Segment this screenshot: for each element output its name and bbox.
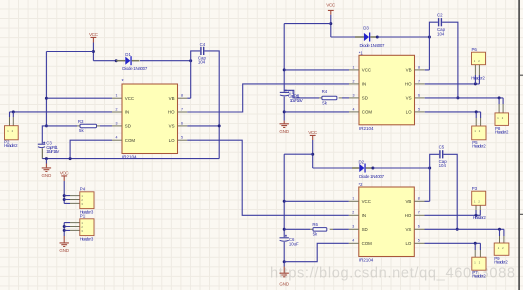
wire VCC1 to rail xyxy=(46,51,93,53)
node rail SD junction circuit3 xyxy=(283,228,286,231)
wire rail to R6 xyxy=(284,228,310,230)
node P2 pin2 junction xyxy=(12,110,15,113)
power VCC symbol circuit2 xyxy=(326,3,336,15)
wire R6 to SD pin xyxy=(333,228,349,230)
node D3 cathode junction xyxy=(376,36,379,39)
pin 7 HO xyxy=(178,111,188,113)
wire P8 pin risers xyxy=(499,98,503,104)
pin leads header P7 xyxy=(475,250,480,257)
wire VCC to P4 rail xyxy=(63,181,65,203)
svg-text:5k: 5k xyxy=(322,100,327,105)
pin 8 VB xyxy=(414,200,424,202)
pin lead D2 anode xyxy=(352,167,359,169)
svg-text:IN: IN xyxy=(125,110,129,115)
pin lead D2 cathode xyxy=(366,167,373,169)
wire P5 pin risers xyxy=(476,112,480,118)
power VCC symbol circuit1 xyxy=(89,32,99,42)
resistor R3 xyxy=(78,119,97,133)
svg-text:2: 2 xyxy=(353,79,355,83)
svg-text:IN: IN xyxy=(362,82,366,87)
IC U? IR2104 circuit1 xyxy=(122,79,178,159)
svg-text:P6: P6 xyxy=(472,47,478,52)
pin leads header P8 xyxy=(499,104,503,113)
svg-text:R3: R3 xyxy=(78,119,84,124)
svg-text:4: 4 xyxy=(352,239,354,243)
svg-text:D1: D1 xyxy=(125,52,131,57)
node P4 pin1 junction xyxy=(63,194,66,197)
pin 1 VCC xyxy=(349,200,359,202)
svg-text:10uF 16V: 10uF 16V xyxy=(290,98,303,103)
wire left rail circuit3 xyxy=(283,154,285,237)
wire LO3 to P7 xyxy=(425,242,481,244)
node COM branch junction xyxy=(69,157,72,160)
wire VCC pin1 xyxy=(46,97,112,99)
connector P6 Header 2 xyxy=(471,47,485,80)
svg-text:VCC: VCC xyxy=(362,68,371,73)
svg-text:SD: SD xyxy=(362,227,368,232)
svg-text:5k: 5k xyxy=(313,231,318,236)
svg-text:P3: P3 xyxy=(472,186,478,191)
diode D3 xyxy=(360,25,386,48)
svg-text:VCC: VCC xyxy=(326,3,336,8)
node C2 left leg junction xyxy=(428,36,431,39)
svg-text:VCC: VCC xyxy=(89,32,99,37)
svg-text:HO: HO xyxy=(405,82,412,87)
pin 7 HO xyxy=(414,214,424,216)
svg-text:C5: C5 xyxy=(439,145,445,150)
pin 6 VS xyxy=(414,228,424,230)
capacitor C2 xyxy=(437,13,446,37)
pin lead D3 anode xyxy=(355,36,364,38)
svg-text:GND: GND xyxy=(42,173,52,178)
node C2 leg VS junction xyxy=(456,96,459,99)
svg-text:4: 4 xyxy=(353,107,355,111)
svg-text:VCC: VCC xyxy=(125,96,134,101)
svg-text:7: 7 xyxy=(181,107,183,111)
svg-text:COM: COM xyxy=(362,241,373,246)
svg-text:IR2104: IR2104 xyxy=(359,258,374,263)
ground GND circuit1 xyxy=(42,159,52,178)
wire C4 left leg to VB pin8 xyxy=(187,51,200,98)
wire R4 to SD pin xyxy=(342,97,349,99)
svg-text:COM: COM xyxy=(362,110,373,115)
wire LO2 to P5 xyxy=(425,111,481,113)
connector P7 Header 2 xyxy=(472,257,486,278)
wire VCC2 to rail xyxy=(284,23,331,25)
svg-text:1: 1 xyxy=(116,94,118,98)
wire HO1 to IN2 xyxy=(187,84,349,112)
capacitor C6 Cap Pol1 xyxy=(280,235,300,247)
svg-text:LO: LO xyxy=(169,138,175,143)
wire C4 right leg down to VS xyxy=(204,51,219,159)
wire D1 cathode to C4 leg xyxy=(140,60,191,62)
wire P6 pin risers xyxy=(475,75,479,84)
node VCC3 tee xyxy=(311,153,314,156)
wire P3 pin risers xyxy=(476,210,480,215)
wire IN1 from header P2 xyxy=(10,111,113,113)
svg-text:VS: VS xyxy=(169,124,175,129)
svg-text:5: 5 xyxy=(181,136,183,140)
pin 3 SD xyxy=(112,125,122,127)
svg-text:2: 2 xyxy=(352,211,354,215)
svg-text:104: 104 xyxy=(439,163,447,168)
capacitor C5 xyxy=(439,145,448,169)
node P4 pin2 junction xyxy=(63,198,66,201)
wire P7 pin risers xyxy=(475,243,480,250)
node COM junction circuit2 xyxy=(283,110,286,113)
pin 4 COM xyxy=(112,139,122,141)
pin lead R6 left xyxy=(310,228,313,230)
node rail-SD junction xyxy=(45,124,48,127)
svg-text:7: 7 xyxy=(418,211,420,215)
svg-text:Header 2: Header 2 xyxy=(4,143,18,148)
capacitor C1 Cap Pol1 xyxy=(280,89,303,103)
svg-text:P1: P1 xyxy=(80,214,86,219)
svg-text:COM: COM xyxy=(125,138,136,143)
node C4 left leg junction xyxy=(189,59,192,62)
capacitor C4 xyxy=(198,42,207,64)
node P8 pin junction xyxy=(498,96,501,99)
pin 5 LO xyxy=(415,111,425,113)
wire C2 left leg to VB pin8 xyxy=(425,22,438,70)
wire D3 to C2 leg xyxy=(377,36,429,38)
ground GND circuit2 xyxy=(279,121,289,134)
pin 3 SD xyxy=(349,228,359,230)
svg-text:3: 3 xyxy=(116,121,118,125)
wire VCC pin1 circuit2 xyxy=(284,69,349,71)
wire SD2 step from rail xyxy=(284,90,319,98)
power VCC symbol bottom-left xyxy=(60,171,70,181)
svg-text:10uF 16V: 10uF 16V xyxy=(46,149,59,154)
connector P4 Header 3 xyxy=(80,187,94,215)
pin 6 VS xyxy=(415,97,425,99)
svg-text:4: 4 xyxy=(116,136,118,140)
capacitor C3 Cap Pol1 xyxy=(38,140,60,154)
svg-text:Header 3: Header 3 xyxy=(80,236,94,241)
wire VCC2 to diode D3 xyxy=(331,36,355,38)
pin 5 LO xyxy=(178,139,188,141)
wire R3 to SD pin xyxy=(100,125,112,127)
svg-text:5k: 5k xyxy=(79,128,84,133)
svg-text:D3: D3 xyxy=(363,25,369,30)
svg-text:IN: IN xyxy=(362,213,366,218)
connector P8 Header 2 xyxy=(495,113,509,135)
svg-text:GND: GND xyxy=(279,129,289,134)
pin lead R4 left xyxy=(319,97,322,99)
svg-text:HO: HO xyxy=(168,110,175,115)
wire VCC pin1 circuit3 xyxy=(284,200,349,202)
pin 2 IN xyxy=(112,111,122,113)
svg-text:P4: P4 xyxy=(80,187,86,192)
svg-text:R6: R6 xyxy=(312,222,318,227)
wire HO3 to P3 xyxy=(425,214,481,216)
svg-text:IR2104: IR2104 xyxy=(359,126,374,131)
wire VS3 to P9 xyxy=(425,228,504,230)
svg-text:VS: VS xyxy=(405,227,411,232)
wire rail to R3 xyxy=(46,125,77,127)
node P7 pin junction xyxy=(474,242,477,245)
wire rail jog to C3 xyxy=(42,126,46,144)
svg-text:Diode 1N4007: Diode 1N4007 xyxy=(122,66,148,71)
wire COM ground rail circuit1 xyxy=(42,158,219,160)
svg-text:SD: SD xyxy=(125,124,131,129)
svg-text:5: 5 xyxy=(418,239,420,243)
node P1 pin3 junction xyxy=(63,229,66,232)
resistor R6 xyxy=(312,222,326,236)
pin leads header P3 xyxy=(476,205,480,210)
node P1 pin2 junction xyxy=(63,225,66,228)
pin lead D3 cathode xyxy=(370,36,377,38)
wire VCC1 to diode D1 xyxy=(93,60,116,62)
svg-text:VCC: VCC xyxy=(362,199,371,204)
wire COM branch xyxy=(70,140,112,158)
svg-text:VB: VB xyxy=(405,199,411,204)
pin leads header P2 xyxy=(10,117,14,126)
svg-text:VCC: VCC xyxy=(60,171,70,176)
svg-text:3: 3 xyxy=(353,93,355,97)
svg-text:104: 104 xyxy=(198,60,206,65)
diode D1 xyxy=(122,52,148,71)
CIRCUIT3 xyxy=(187,130,509,286)
svg-text:VB: VB xyxy=(169,96,175,101)
sheet border right edge xyxy=(519,0,523,290)
pin 4 COM xyxy=(349,242,359,244)
svg-text:LO: LO xyxy=(406,110,412,115)
svg-text:SD: SD xyxy=(362,96,368,101)
svg-text:LO: LO xyxy=(405,241,411,246)
ground GND bottom-left xyxy=(59,236,69,253)
node diode D1 anode junction xyxy=(115,59,118,62)
watermark text xyxy=(270,266,515,282)
svg-text:VS: VS xyxy=(406,96,412,101)
power VCC symbol circuit3 xyxy=(308,130,318,140)
svg-text:Diode 1N4007: Diode 1N4007 xyxy=(359,174,385,179)
svg-text:6: 6 xyxy=(418,93,420,97)
wire P1 pin stubs xyxy=(64,223,70,231)
svg-text:2: 2 xyxy=(116,107,118,111)
node C5 left leg junction xyxy=(428,167,431,170)
svg-text:C2: C2 xyxy=(437,13,443,18)
pin leads header P4 xyxy=(70,196,80,204)
connector P1 Header 3 xyxy=(80,214,94,242)
svg-text:Header 2: Header 2 xyxy=(472,144,486,149)
node D2 cathode junction xyxy=(371,167,374,170)
wire C5 left leg to VB pin8 xyxy=(425,154,440,201)
wire VCC3 to diode D2 xyxy=(313,167,352,169)
pin leads header P5 xyxy=(476,118,480,126)
svg-text:6: 6 xyxy=(181,121,183,125)
node P5 pin junction xyxy=(475,110,478,113)
node VCC1 tee xyxy=(92,50,95,53)
svg-text:3: 3 xyxy=(352,225,354,229)
node P6 pin junction xyxy=(474,82,477,85)
svg-text:8: 8 xyxy=(418,65,420,69)
pin lead R3 left xyxy=(77,125,80,127)
wire COM branch circuit3 xyxy=(284,243,349,261)
wire C1 bottom lead xyxy=(283,97,285,121)
svg-text:10uF: 10uF xyxy=(289,242,299,247)
svg-text:GND: GND xyxy=(59,248,69,253)
wire VCC3 to rail xyxy=(284,153,313,155)
wire D2 to C5 leg xyxy=(373,167,430,169)
pin lead R3 right xyxy=(97,125,100,127)
wire P4 pin stubs xyxy=(64,196,70,204)
CIRCUIT1 xyxy=(4,32,221,253)
connector P3 Header 2 xyxy=(472,186,487,220)
node C5 leg VS junction xyxy=(456,228,459,231)
wire C5 right leg down to VS xyxy=(443,154,457,229)
resistor R4 xyxy=(322,89,337,105)
wire LO1 to IN3 xyxy=(187,140,349,215)
wire COM pin circuit2 xyxy=(284,111,349,113)
pin lead D1 cathode xyxy=(132,60,140,62)
svg-text:VB: VB xyxy=(406,68,412,73)
svg-text:GND: GND xyxy=(279,281,289,286)
svg-text:HO: HO xyxy=(405,213,412,218)
node VCC2 tee xyxy=(329,22,332,25)
pin 6 VS xyxy=(178,125,188,127)
pin 4 COM xyxy=(349,111,359,113)
wire C3 bottom lead xyxy=(41,148,43,158)
svg-text:Header 2: Header 2 xyxy=(494,260,508,265)
pin leads header P1 xyxy=(70,223,80,231)
pin 5 LO xyxy=(414,242,424,244)
pin lead R6 right xyxy=(330,228,333,230)
wire P1 rail xyxy=(63,223,65,236)
connector P5 Header 2 xyxy=(472,126,487,149)
wire VCC3 stem down xyxy=(312,140,314,168)
wire C6 bottom lead xyxy=(283,242,285,262)
pin 1 VCC xyxy=(112,97,122,99)
svg-text:Header 2: Header 2 xyxy=(471,75,485,80)
wire VS1 to C4 leg xyxy=(187,125,219,127)
IC *1 IR2104 circuit2 xyxy=(359,50,415,131)
wire HO2 to P6 xyxy=(425,83,480,85)
pin 8 VB xyxy=(178,97,188,99)
node C4 leg VS junction xyxy=(218,124,221,127)
connector P2 Header 2 xyxy=(4,126,18,148)
pin lead R4 right xyxy=(339,97,342,99)
svg-text:8: 8 xyxy=(181,94,183,98)
wire C2 right leg down to VS xyxy=(442,22,458,98)
pin lead D1 anode xyxy=(116,60,125,62)
svg-text:8: 8 xyxy=(418,197,420,201)
IC *2 IR2104 circuit3 xyxy=(359,182,415,263)
pin 2 IN xyxy=(349,83,359,85)
pin 3 SD xyxy=(349,97,359,99)
node rail VCC pin junction xyxy=(283,68,286,71)
wire VCC2 stem down xyxy=(330,15,332,37)
svg-text:104: 104 xyxy=(437,31,445,36)
wire VS2 to P8 xyxy=(425,97,503,99)
svg-text:Header 2: Header 2 xyxy=(473,215,487,220)
pin leads header P9 xyxy=(500,236,504,243)
node P3 pin junction xyxy=(475,214,478,217)
svg-text:*2: *2 xyxy=(359,182,364,187)
svg-text:*1: *1 xyxy=(359,50,364,55)
svg-text:Diode 1N4007: Diode 1N4007 xyxy=(360,43,386,48)
svg-text:1: 1 xyxy=(353,65,355,69)
pin 1 VCC xyxy=(349,69,359,71)
connector P9 Header 2 xyxy=(494,243,509,265)
svg-text:C4: C4 xyxy=(200,42,206,47)
node COM rail junction circuit3 xyxy=(283,260,286,263)
node rail-pin1 junction xyxy=(45,97,48,100)
diode D2 xyxy=(359,159,385,178)
pin 2 IN xyxy=(349,214,359,216)
svg-text:R4: R4 xyxy=(322,89,328,94)
svg-text:D2: D2 xyxy=(359,159,365,164)
wire VCC1 stem down xyxy=(92,43,94,61)
svg-text:7: 7 xyxy=(418,79,420,83)
node gnd rail junction xyxy=(45,157,48,160)
ground GND circuit3 xyxy=(279,262,289,287)
wire P2 pin risers xyxy=(10,112,14,117)
pin 7 HO xyxy=(415,83,425,85)
svg-text:Header 2: Header 2 xyxy=(495,130,509,135)
pin leads header P6 xyxy=(475,65,479,75)
node P9 pin junction xyxy=(498,228,501,231)
svg-text:5: 5 xyxy=(418,107,420,111)
node rail VCC pin junction circuit3 xyxy=(283,200,286,203)
svg-text:VCC: VCC xyxy=(308,130,318,135)
svg-text:6: 6 xyxy=(418,225,420,229)
wire P9 pin risers xyxy=(500,229,504,236)
pin 8 VB xyxy=(415,69,425,71)
wire left rail circuit1 xyxy=(45,52,47,126)
svg-text:1: 1 xyxy=(352,197,354,201)
svg-text:Header 2: Header 2 xyxy=(472,273,486,278)
CIRCUIT2 xyxy=(187,3,509,149)
wire left rail circuit2 xyxy=(283,24,285,92)
